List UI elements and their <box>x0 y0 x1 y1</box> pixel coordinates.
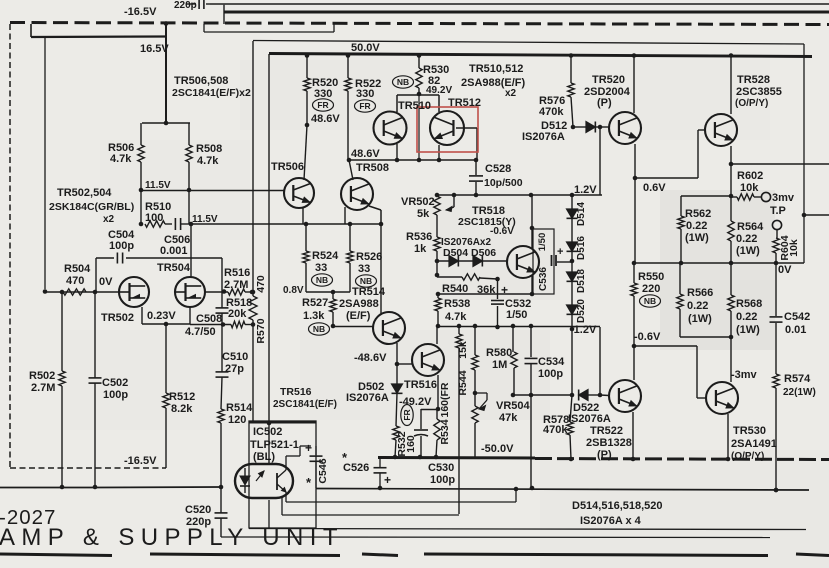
svg-text:TR514: TR514 <box>352 286 386 298</box>
svg-text:D520: D520 <box>576 299 587 323</box>
svg-text:TLP521-1: TLP521-1 <box>250 439 299 451</box>
svg-text:0.23V: 0.23V <box>147 310 176 322</box>
svg-text:16.5V: 16.5V <box>140 43 169 55</box>
svg-text:R570: R570 <box>255 318 267 343</box>
svg-text:AMP & SUPPLY UNIT: AMP & SUPPLY UNIT <box>0 524 344 551</box>
svg-text:C502: C502 <box>102 377 128 389</box>
svg-text:IS2076A: IS2076A <box>346 392 389 404</box>
svg-text:100p: 100p <box>103 389 128 401</box>
svg-text:-50.0V: -50.0V <box>481 443 514 455</box>
svg-text:NB: NB <box>316 275 328 285</box>
svg-text:FR: FR <box>402 409 412 420</box>
svg-text:220p: 220p <box>174 0 197 11</box>
svg-text:0V: 0V <box>99 276 113 288</box>
svg-text:T.P: T.P <box>770 205 786 217</box>
svg-text:1/50: 1/50 <box>537 233 548 252</box>
svg-text:D504 D506: D504 D506 <box>443 247 496 259</box>
svg-text:0.001: 0.001 <box>160 245 188 257</box>
svg-text:R602: R602 <box>737 170 763 182</box>
svg-text:10k: 10k <box>740 182 759 194</box>
svg-text:4.7k: 4.7k <box>445 311 467 323</box>
svg-text:TR528: TR528 <box>737 74 770 86</box>
svg-text:100: 100 <box>145 212 163 224</box>
svg-text:4.7k: 4.7k <box>197 155 219 167</box>
svg-text:2SA1491: 2SA1491 <box>731 438 777 450</box>
svg-text:(O/P/Y): (O/P/Y) <box>731 451 764 462</box>
svg-text:TR522: TR522 <box>590 425 623 437</box>
svg-text:2SB1328: 2SB1328 <box>586 437 632 449</box>
svg-text:D518: D518 <box>576 269 587 293</box>
svg-text:2SC1841(E/F): 2SC1841(E/F) <box>273 399 337 410</box>
svg-text:160: 160 <box>405 435 417 453</box>
svg-text:220p: 220p <box>186 516 211 528</box>
svg-text:(P): (P) <box>597 449 612 461</box>
svg-text:2.7M: 2.7M <box>31 382 55 394</box>
svg-text:C510: C510 <box>222 351 248 363</box>
svg-text:0V: 0V <box>778 264 792 276</box>
svg-text:20k: 20k <box>228 308 247 320</box>
svg-text:TR502: TR502 <box>101 312 134 324</box>
svg-text:22(1W): 22(1W) <box>783 387 816 398</box>
svg-text:47k: 47k <box>499 412 518 424</box>
svg-text:2SC3855: 2SC3855 <box>736 86 782 98</box>
svg-text:x2: x2 <box>505 88 517 99</box>
svg-text:-1.2V: -1.2V <box>570 324 597 336</box>
svg-text:D514: D514 <box>576 202 587 226</box>
svg-text:R544: R544 <box>457 370 469 395</box>
svg-text:R534: R534 <box>439 419 451 444</box>
svg-text:4.7k: 4.7k <box>110 153 132 165</box>
svg-text:+: + <box>305 441 312 455</box>
svg-text:VR504: VR504 <box>496 400 531 412</box>
svg-text:33: 33 <box>358 263 370 275</box>
svg-text:R564: R564 <box>737 221 764 233</box>
svg-text:4.7/50: 4.7/50 <box>185 326 216 338</box>
svg-text:470k: 470k <box>539 106 564 118</box>
svg-text:0.22: 0.22 <box>736 233 757 245</box>
svg-text:C536: C536 <box>538 267 549 291</box>
svg-text:R512: R512 <box>169 391 195 403</box>
svg-text:TR530: TR530 <box>733 425 766 437</box>
svg-text:x2: x2 <box>103 214 115 225</box>
svg-text:-16.5V: -16.5V <box>124 455 157 467</box>
svg-text:+: + <box>557 246 563 258</box>
svg-text:(E/F): (E/F) <box>346 310 371 322</box>
svg-text:0.6V: 0.6V <box>643 182 666 194</box>
svg-text:0.22: 0.22 <box>687 300 708 312</box>
svg-text:11.5V: 11.5V <box>192 214 218 225</box>
svg-text:15k: 15k <box>457 341 469 359</box>
svg-text:10k: 10k <box>788 239 800 257</box>
svg-text:C508: C508 <box>196 313 222 325</box>
svg-text:FR: FR <box>317 100 328 110</box>
svg-text:TR510: TR510 <box>398 100 431 112</box>
svg-text:49.2V: 49.2V <box>426 85 452 96</box>
svg-text:TR502,504: TR502,504 <box>57 187 112 199</box>
svg-text:C528: C528 <box>485 163 511 175</box>
svg-text:330: 330 <box>356 88 374 100</box>
svg-text:TR506,508: TR506,508 <box>174 75 228 87</box>
svg-text:0.22: 0.22 <box>736 311 757 323</box>
svg-text:C530: C530 <box>428 462 454 474</box>
svg-text:R550: R550 <box>638 271 664 283</box>
svg-text:TR512: TR512 <box>448 97 481 109</box>
svg-text:R566: R566 <box>687 287 713 299</box>
svg-text:R562: R562 <box>685 208 711 220</box>
svg-text:IS2076A: IS2076A <box>568 413 611 425</box>
svg-text:2SC1841(E/F)x2: 2SC1841(E/F)x2 <box>172 87 251 99</box>
svg-text:R514: R514 <box>226 402 253 414</box>
svg-text:36k: 36k <box>477 284 496 296</box>
svg-text:NB: NB <box>397 77 409 87</box>
svg-text:-16.5V: -16.5V <box>124 6 157 18</box>
svg-text:2.7M: 2.7M <box>224 279 248 291</box>
svg-text:(O/P/Y): (O/P/Y) <box>735 98 768 109</box>
svg-text:33: 33 <box>315 262 327 274</box>
svg-text:1k: 1k <box>414 243 427 255</box>
svg-text:R538: R538 <box>444 298 470 310</box>
svg-text:R516: R516 <box>224 267 250 279</box>
svg-text:100p: 100p <box>109 240 134 252</box>
svg-text:R502: R502 <box>29 370 55 382</box>
svg-text:FR: FR <box>359 101 370 111</box>
svg-text:0.22: 0.22 <box>686 220 707 232</box>
svg-text:(1W): (1W) <box>736 324 760 336</box>
svg-text:R580: R580 <box>486 347 512 359</box>
svg-text:NB: NB <box>644 296 656 306</box>
svg-text:D516: D516 <box>576 236 587 260</box>
svg-text:R568: R568 <box>736 298 762 310</box>
svg-text:NB: NB <box>313 324 325 334</box>
svg-text:2SA988: 2SA988 <box>339 298 379 310</box>
svg-text:100p: 100p <box>430 474 455 486</box>
svg-text:TR516: TR516 <box>404 379 437 391</box>
svg-text:R508: R508 <box>196 143 222 155</box>
svg-text:2SK184C(GR/BL): 2SK184C(GR/BL) <box>49 201 134 213</box>
svg-text:1M: 1M <box>492 359 507 371</box>
svg-text:470: 470 <box>66 275 84 287</box>
svg-text:(P): (P) <box>597 97 612 109</box>
svg-text:IS2076A x 4: IS2076A x 4 <box>580 515 642 527</box>
svg-text:-48.6V: -48.6V <box>354 352 387 364</box>
svg-text:0.01: 0.01 <box>785 324 806 336</box>
svg-text:120: 120 <box>228 414 246 426</box>
svg-text:48.6V: 48.6V <box>351 148 380 160</box>
svg-text:R574: R574 <box>784 373 811 385</box>
svg-text:D514,516,518,520: D514,516,518,520 <box>572 500 663 512</box>
svg-text:160(FR: 160(FR <box>439 382 451 417</box>
svg-text:(1W): (1W) <box>688 313 712 325</box>
svg-text:100p: 100p <box>538 368 563 380</box>
svg-text:R504: R504 <box>64 263 91 275</box>
svg-text:(BL): (BL) <box>253 451 275 463</box>
svg-text:C534: C534 <box>538 356 565 368</box>
svg-text:1.3k: 1.3k <box>303 310 325 322</box>
svg-text:1.2V: 1.2V <box>574 184 597 196</box>
svg-text:(1W): (1W) <box>685 232 709 244</box>
svg-text:TR506: TR506 <box>271 161 304 173</box>
svg-text:VR502: VR502 <box>401 196 435 208</box>
svg-text:-3mv: -3mv <box>731 369 758 381</box>
svg-text:27p: 27p <box>225 363 244 375</box>
svg-text:1/50: 1/50 <box>506 309 527 321</box>
svg-text:470: 470 <box>255 275 267 293</box>
svg-text:R527: R527 <box>302 297 328 309</box>
svg-text:48.6V: 48.6V <box>311 113 340 125</box>
svg-text:0.8V: 0.8V <box>283 285 304 296</box>
svg-text:220: 220 <box>642 283 660 295</box>
svg-text:3mv: 3mv <box>772 192 795 204</box>
svg-text:-0.6V: -0.6V <box>634 331 661 343</box>
svg-text:IS2076A: IS2076A <box>522 131 565 143</box>
svg-text:TR510,512: TR510,512 <box>469 63 523 75</box>
svg-text:IC502: IC502 <box>253 426 282 438</box>
svg-text:TR504: TR504 <box>157 262 191 274</box>
svg-text:8.2k: 8.2k <box>171 403 193 415</box>
svg-text:C520: C520 <box>185 504 211 516</box>
svg-text:TR520: TR520 <box>592 74 625 86</box>
svg-text:C542: C542 <box>784 311 810 323</box>
svg-text:R526: R526 <box>356 251 382 263</box>
svg-text:NB: NB <box>360 276 372 286</box>
svg-text:50.0V: 50.0V <box>351 42 380 54</box>
svg-text:TR516: TR516 <box>280 386 312 398</box>
svg-text:R524: R524 <box>312 250 339 262</box>
svg-text:5k: 5k <box>417 208 430 220</box>
svg-text:10p/500: 10p/500 <box>484 177 523 189</box>
svg-text:C546: C546 <box>317 458 329 483</box>
svg-text:470k: 470k <box>543 424 568 436</box>
svg-text:(1W): (1W) <box>736 245 760 257</box>
svg-text:330: 330 <box>314 88 332 100</box>
svg-text:+: + <box>384 473 391 487</box>
svg-text:11.5V: 11.5V <box>145 180 171 191</box>
svg-text:R540: R540 <box>442 283 468 295</box>
svg-text:-0.6V: -0.6V <box>490 226 514 237</box>
svg-text:+: + <box>501 283 508 297</box>
svg-text:TR508: TR508 <box>356 162 389 174</box>
svg-text:R536: R536 <box>406 231 432 243</box>
